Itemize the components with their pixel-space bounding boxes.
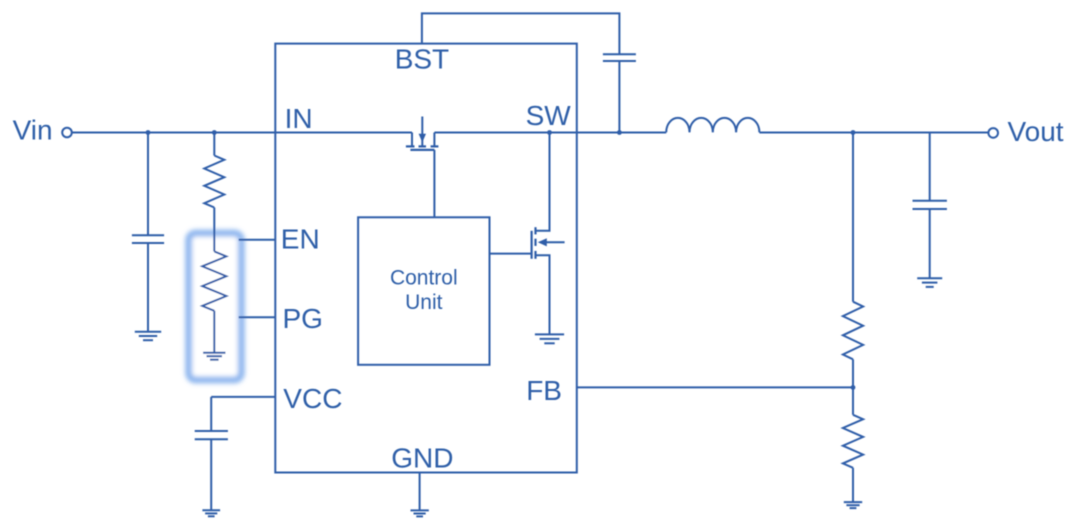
resistor R1 [204,133,224,252]
resistor R4 (feedback bottom) [843,387,863,501]
ground (R2) [203,353,225,360]
svg-text:EN: EN [281,224,320,255]
wire Vin rail [72,132,412,134]
ground (R4) [844,502,862,508]
transistor Q1 (high-side) [406,117,439,150]
capacitor C3 (VCC) [195,397,228,510]
IC U1 body [275,44,577,473]
resistor R2 (highlighted) [202,251,226,352]
svg-text:Control: Control [390,267,458,290]
wire Q1 gate to control unit [433,150,435,217]
ground (output cap) [917,278,942,287]
svg-text:FB: FB [526,375,562,406]
wire FB [577,386,853,388]
wire Q2 gate [490,253,532,255]
capacitor C1 (input) [132,133,164,332]
terminal Vout [988,128,998,138]
highlight box around resistor R2 [189,233,242,380]
svg-text:Vout: Vout [1008,116,1064,147]
capacitor C4 (output) [913,133,947,278]
wire SW rail [434,132,666,134]
capacitor C2 (bootstrap) [603,54,636,132]
node at C1 tap [146,130,151,135]
svg-text:BST: BST [395,44,449,75]
node at R1 tap [212,130,217,135]
wire VCC stub [211,396,275,398]
svg-text:SW: SW [526,100,572,131]
ground (input cap) [135,332,161,340]
control unit U2 [358,217,489,364]
node at FB divider tap [851,130,856,135]
inductor L1 [666,118,759,133]
svg-text:VCC: VCC [283,383,342,414]
wire BST loop [422,13,620,54]
terminal Vin [62,128,72,138]
svg-text:IN: IN [285,103,313,134]
svg-text:PG: PG [283,303,323,334]
resistor R3 (feedback top) [843,133,863,388]
node at FB junction [851,385,856,390]
svg-text:Vin: Vin [13,115,53,146]
wire EN stub [239,239,276,241]
node at C2 [617,130,622,135]
node at Q2 drain [547,130,552,135]
ground (Q2 source) [535,334,564,343]
ground (GND pin) [411,510,429,516]
transistor Q2 (low-side) [532,133,565,334]
wire PG stub [239,316,276,318]
svg-text:Unit: Unit [405,291,443,314]
wire Vout rail [759,132,988,134]
wire GND pin [419,473,421,511]
svg-text:GND: GND [391,443,453,474]
ground (VCC cap) [202,510,220,516]
